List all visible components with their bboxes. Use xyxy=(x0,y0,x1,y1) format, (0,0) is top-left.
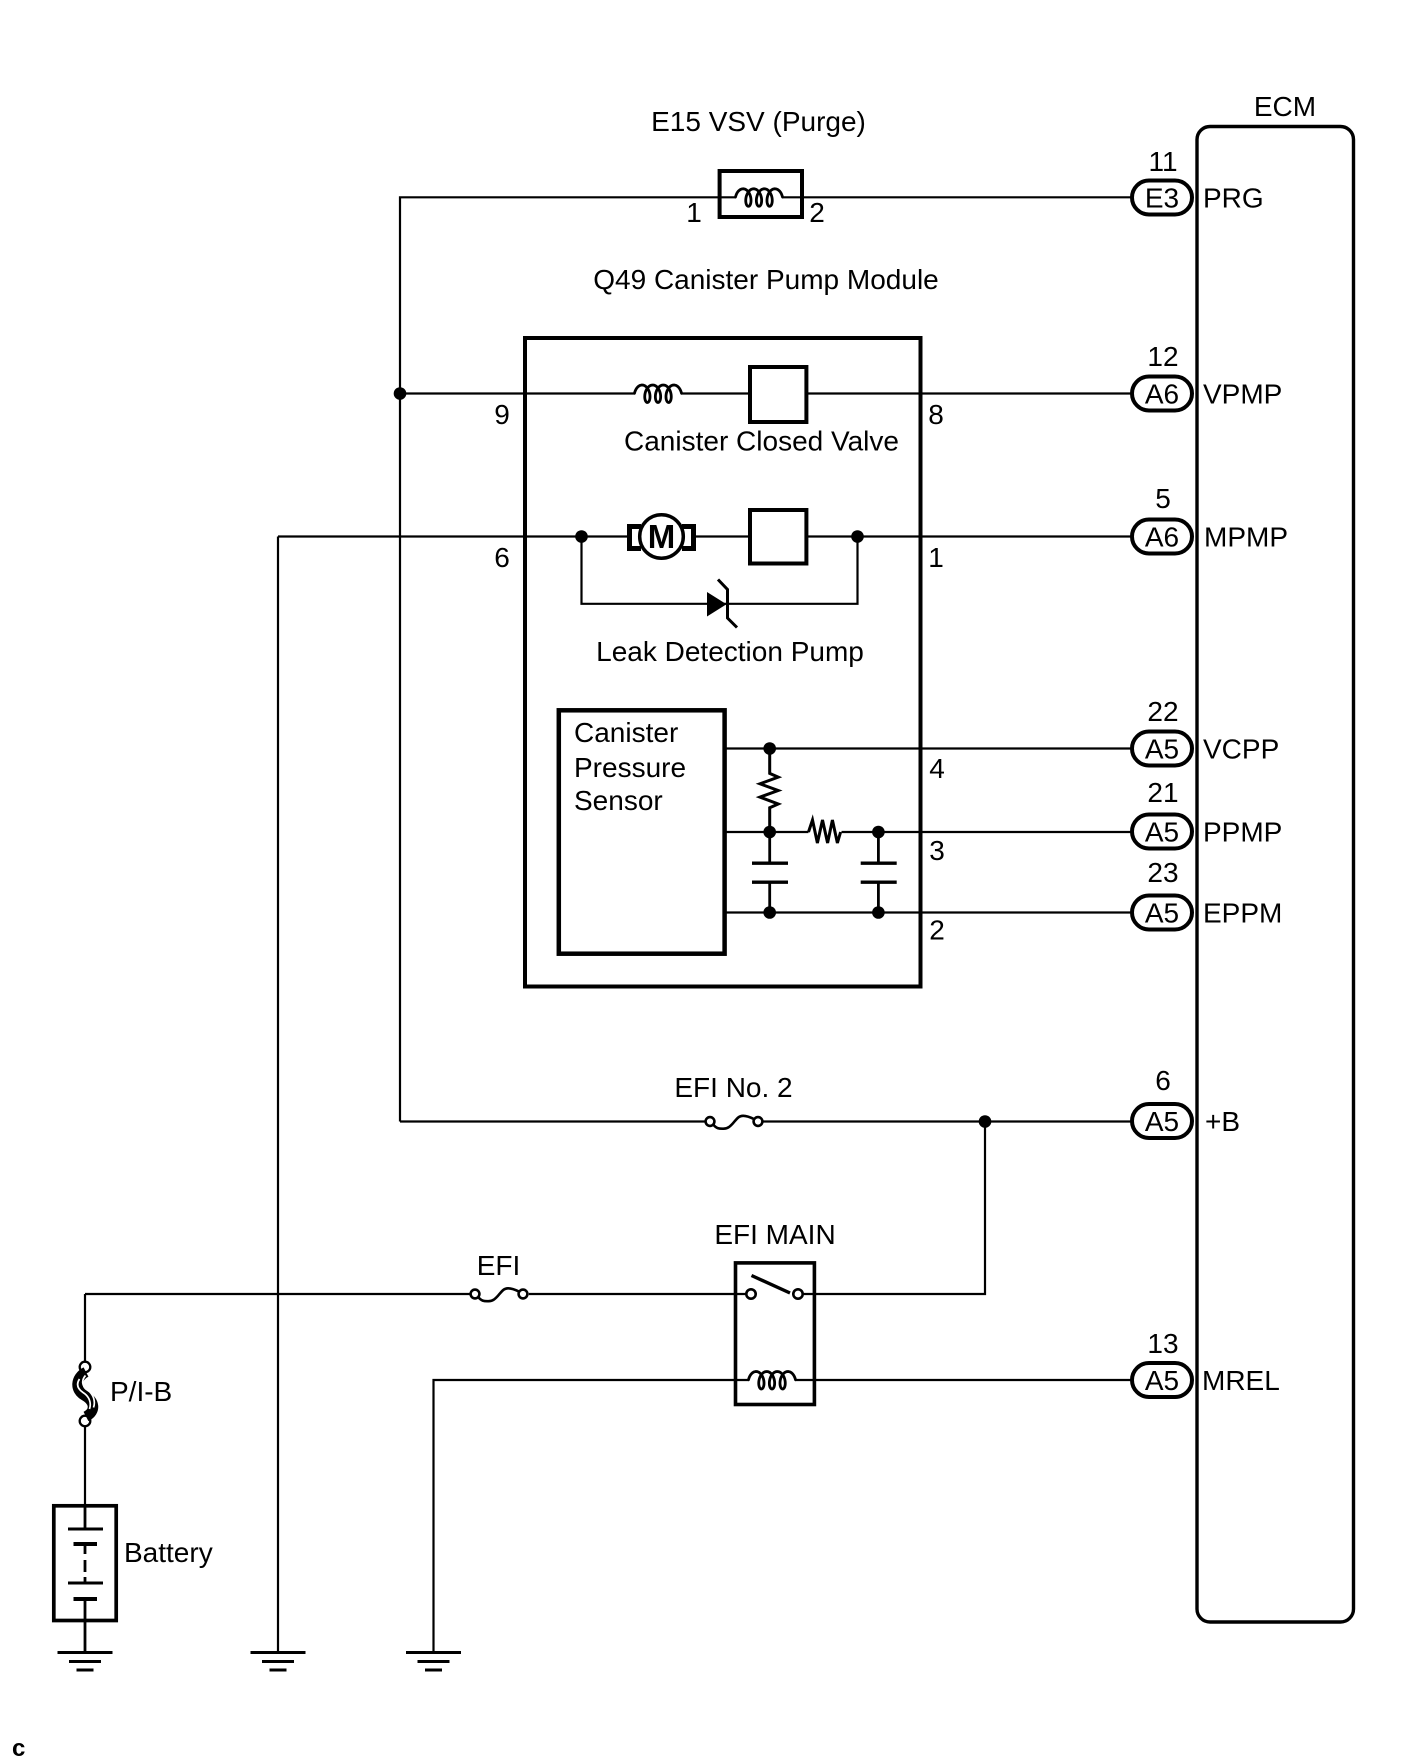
svg-text:VPMP: VPMP xyxy=(1203,379,1282,410)
leak detection pump motor M xyxy=(630,515,694,559)
ground middle xyxy=(251,1653,306,1671)
svg-text:Sensor: Sensor xyxy=(574,785,663,816)
junction dot +B xyxy=(979,1115,992,1128)
junction dot left of motor xyxy=(575,530,588,543)
canister closed valve coil xyxy=(635,385,682,403)
relay coil xyxy=(749,1372,796,1390)
connector A5 pill (+B) xyxy=(1132,1104,1192,1138)
horizontal resistor on PPMP wire xyxy=(809,820,841,843)
connector A5 pill (VCPP) xyxy=(1132,732,1192,766)
wire PPMP sensor to resistor xyxy=(725,831,809,833)
wire resistor to A5 pill xyxy=(842,831,1132,833)
svg-text:A5: A5 xyxy=(1145,898,1179,929)
battery xyxy=(54,1506,116,1651)
svg-text:11: 11 xyxy=(1148,146,1177,177)
connector A5 pill (EPPM) xyxy=(1132,896,1192,930)
svg-text:E3: E3 xyxy=(1145,183,1179,214)
junction dot VCPP xyxy=(763,742,776,755)
svg-text:2: 2 xyxy=(809,197,825,228)
zener diode on bypass xyxy=(707,592,727,617)
svg-text:A5: A5 xyxy=(1145,817,1179,848)
svg-text:EPPM: EPPM xyxy=(1203,898,1282,929)
svg-text:P/I-B: P/I-B xyxy=(110,1376,172,1407)
wire EFI fuse to relay xyxy=(529,1293,746,1295)
fuse EFI No. 2 xyxy=(706,1116,763,1129)
fuse EFI xyxy=(471,1288,528,1301)
ground battery xyxy=(58,1653,113,1671)
wire fuse to A5 pill xyxy=(763,1120,1131,1122)
wire VPMP left segment with junction on left vertical xyxy=(400,392,635,394)
svg-text:12: 12 xyxy=(1147,341,1178,372)
wire motor to LDP box xyxy=(696,535,750,537)
svg-text:4: 4 xyxy=(929,753,945,784)
connector E3 pill xyxy=(1132,181,1192,215)
junction dot PPMP right xyxy=(872,826,885,839)
junction dot right of LDP box xyxy=(851,530,864,543)
svg-text:22: 22 xyxy=(1147,696,1178,727)
wire CCV box to A6 pill xyxy=(807,392,1132,394)
svg-text:5: 5 xyxy=(1155,483,1171,514)
svg-text:13: 13 xyxy=(1147,1328,1178,1359)
svg-text:M: M xyxy=(648,518,676,555)
svg-text:23: 23 xyxy=(1147,857,1178,888)
svg-text:1: 1 xyxy=(928,542,944,573)
wire PRG: left vertical top corner to VSV xyxy=(400,197,736,1121)
wire coil to CCV box xyxy=(682,392,751,394)
svg-text:A6: A6 xyxy=(1145,522,1179,553)
svg-text:ECM: ECM xyxy=(1254,91,1316,122)
VSV coil xyxy=(736,189,783,207)
wire fusible link to battery xyxy=(84,1427,86,1505)
vertical resistor between VCPP and PPMP nets xyxy=(760,749,778,833)
svg-text:6: 6 xyxy=(1155,1065,1171,1096)
svg-text:1: 1 xyxy=(686,197,702,228)
svg-text:8: 8 xyxy=(928,399,944,430)
svg-text:PPMP: PPMP xyxy=(1203,817,1282,848)
svg-text:6: 6 xyxy=(494,542,510,573)
capacitor right (between PPMP and EPPM) xyxy=(861,832,897,913)
leak detection pump box xyxy=(750,510,806,564)
far-left vertical wire from MPMP to ground xyxy=(277,537,279,1653)
fusible link P/I-B xyxy=(78,1362,95,1427)
bypass wire with zener xyxy=(582,537,858,604)
wire +B from left vertical to fuse xyxy=(400,1120,705,1122)
svg-text:MPMP: MPMP xyxy=(1204,522,1288,553)
connector A6 pill (MPMP) xyxy=(1132,520,1192,554)
wire battery branch to EFI fuse xyxy=(85,1293,470,1295)
svg-text:Pressure: Pressure xyxy=(574,752,686,783)
relay switch blade xyxy=(752,1276,791,1294)
connector A5 pill (PPMP) xyxy=(1132,815,1192,849)
svg-text:EFI MAIN: EFI MAIN xyxy=(714,1219,835,1250)
svg-text:A5: A5 xyxy=(1145,1106,1179,1137)
capacitor left (between PPMP and EPPM) xyxy=(752,832,788,913)
ground right (relay coil) xyxy=(406,1653,461,1671)
wire VSV to E3 pill xyxy=(782,196,1131,198)
svg-text:E15 VSV (Purge): E15 VSV (Purge) xyxy=(651,106,866,137)
svg-text:MREL: MREL xyxy=(1202,1365,1280,1396)
VSV (Purge) solenoid E15: box xyxy=(720,171,802,217)
svg-text:2: 2 xyxy=(929,915,945,946)
svg-text:Canister: Canister xyxy=(574,717,678,748)
svg-text:PRG: PRG xyxy=(1203,183,1264,214)
Q49 Canister Pump Module box xyxy=(525,338,921,987)
svg-text:Q49 Canister Pump Module: Q49 Canister Pump Module xyxy=(593,264,939,295)
relay switch contacts xyxy=(746,1289,755,1298)
svg-text:c: c xyxy=(12,1735,25,1762)
svg-text:A6: A6 xyxy=(1145,379,1179,410)
svg-text:21: 21 xyxy=(1147,777,1178,808)
wire VCPP sensor to A5 pill xyxy=(725,747,1131,749)
EFI MAIN relay box xyxy=(736,1263,815,1405)
svg-text:Canister Closed Valve: Canister Closed Valve xyxy=(624,426,899,457)
junction dot EPPM left xyxy=(763,906,776,919)
svg-text:Leak Detection Pump: Leak Detection Pump xyxy=(596,636,864,667)
svg-text:EFI: EFI xyxy=(477,1250,521,1281)
junction dot EPPM right xyxy=(872,906,885,919)
svg-text:A5: A5 xyxy=(1145,734,1179,765)
svg-text:EFI No. 2: EFI No. 2 xyxy=(674,1072,792,1103)
svg-text:A5: A5 xyxy=(1145,1365,1179,1396)
svg-text:VCPP: VCPP xyxy=(1203,734,1279,765)
canister closed valve box xyxy=(750,367,806,422)
relay coil wire left (to ground vertical) xyxy=(434,1380,749,1652)
svg-text:Battery: Battery xyxy=(124,1537,213,1568)
connector A5 pill (MREL) xyxy=(1132,1363,1192,1397)
svg-text:3: 3 xyxy=(929,835,945,866)
wire LDP box to A6 pill xyxy=(807,535,1132,537)
wire corner down to fusible link xyxy=(84,1294,86,1362)
svg-text:+B: +B xyxy=(1205,1106,1240,1137)
wire EPPM sensor to A5 pill xyxy=(725,911,1131,913)
wire MPMP from far-left vertical to motor xyxy=(278,535,627,537)
ECM box xyxy=(1197,127,1354,1623)
wire junction down to relay switch xyxy=(803,1122,985,1295)
junction dot PPMP left xyxy=(763,826,776,839)
canister pressure sensor box xyxy=(559,710,725,953)
connector A6 pill (VPMP) xyxy=(1132,377,1192,411)
wire relay coil to MREL pill xyxy=(796,1379,1132,1381)
junction dot at left vertical / VPMP xyxy=(394,387,407,400)
svg-text:9: 9 xyxy=(494,399,510,430)
